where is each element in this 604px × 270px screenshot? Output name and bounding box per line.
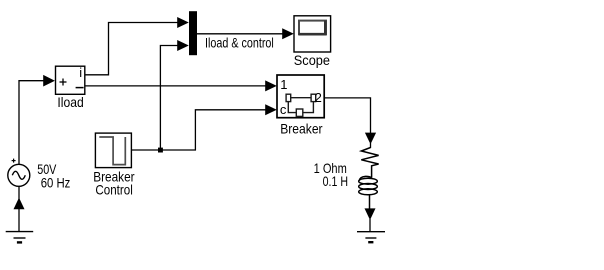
svg-text:Control: Control — [95, 181, 132, 197]
svg-text:2: 2 — [315, 90, 322, 105]
svg-text:Scope: Scope — [294, 52, 330, 68]
svg-text:Breaker: Breaker — [280, 120, 323, 136]
svg-text:c: c — [280, 102, 287, 117]
svg-text:60 Hz: 60 Hz — [41, 175, 71, 191]
svg-text:i: i — [79, 65, 82, 80]
svg-text:1: 1 — [280, 77, 287, 92]
svg-text:Iload: Iload — [57, 94, 83, 110]
svg-text:Iload & control: Iload & control — [205, 35, 274, 51]
svg-text:0.1 H: 0.1 H — [323, 173, 348, 189]
